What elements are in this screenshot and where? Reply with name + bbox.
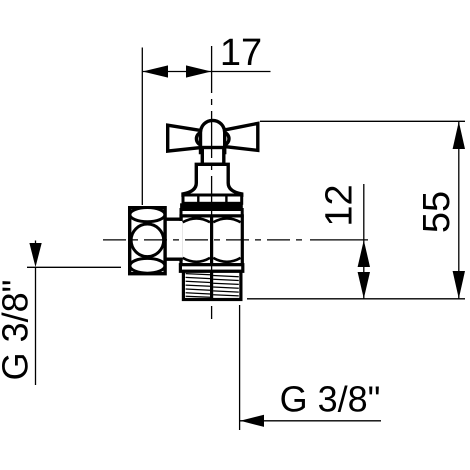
- port sphere circle: [131, 224, 164, 257]
- dim 55/12 bottom reference line: [247, 298, 465, 300]
- threaded outlet: [183, 271, 241, 299]
- dim 12 arrow up: [358, 240, 370, 267]
- valve stem: [202, 148, 224, 165]
- dim 55 arrow up: [453, 122, 465, 150]
- ring band tick left: [197, 195, 199, 203]
- handle right ear arc: [224, 132, 229, 145]
- body seal black band: [180, 203, 243, 209]
- bottom label vertical line: [239, 305, 241, 430]
- dim 12 dimension line: [363, 184, 365, 299]
- handle left wing: [168, 125, 201, 151]
- left label vertical line: [35, 267, 37, 385]
- svg-text:G 3/8": G 3/8": [280, 378, 381, 419]
- hex top chamfer arc left: [183, 218, 210, 222]
- thread center facet line: [210, 271, 213, 299]
- handle right wing: [225, 123, 258, 150]
- port bottom rim ellipse: [130, 258, 165, 273]
- svg-text:G 3/8": G 3/8": [0, 280, 36, 381]
- hex bottom chamfer arc left: [183, 258, 210, 262]
- port neck: [163, 221, 183, 258]
- bonnet block and flare: [183, 164, 242, 195]
- svg-text:17: 17: [220, 32, 262, 74]
- dim 55 arrow down: [453, 271, 465, 299]
- bottom label leader line: [240, 420, 381, 422]
- left label arrow tail: [35, 241, 37, 247]
- dim 55 top reference line: [260, 120, 465, 122]
- handle hub dome: [201, 120, 225, 152]
- dim 12 reference line: [310, 239, 368, 241]
- thread hatch lines right: [213, 276, 239, 296]
- svg-text:55: 55: [416, 191, 458, 233]
- bonnet ring band: [183, 195, 242, 203]
- port top rim ellipse: [130, 208, 165, 222]
- ring band tick right: [225, 195, 227, 203]
- neck bottom edge: [163, 258, 183, 261]
- side port cylinder: [130, 208, 165, 274]
- hex top chamfer arc right: [213, 218, 240, 222]
- hex body: [181, 216, 242, 265]
- svg-text:12: 12: [318, 184, 360, 226]
- horizontal centerline: [103, 239, 308, 241]
- dim 12 arrow down: [358, 272, 370, 299]
- left label leader line horizontal: [27, 266, 121, 268]
- dim 17 extension line: [141, 48, 143, 206]
- hex bottom chamfer arc right: [213, 258, 240, 262]
- left label arrow down: [29, 243, 41, 267]
- body white band: [181, 210, 242, 216]
- handle left ear arc: [196, 132, 201, 145]
- collar below hex: [180, 265, 242, 272]
- thread hatch lines left: [186, 274, 211, 298]
- bottom label arrow left: [240, 415, 264, 427]
- dim 17 arrow left: [143, 65, 169, 77]
- neck top edge: [163, 217, 183, 220]
- dim 17 arrow right: [186, 65, 211, 77]
- dim 55 dimension line: [458, 121, 460, 298]
- vertical centerline: [211, 46, 213, 319]
- hex facet center line: [210, 216, 213, 265]
- dim 17 dimension line: [142, 71, 270, 73]
